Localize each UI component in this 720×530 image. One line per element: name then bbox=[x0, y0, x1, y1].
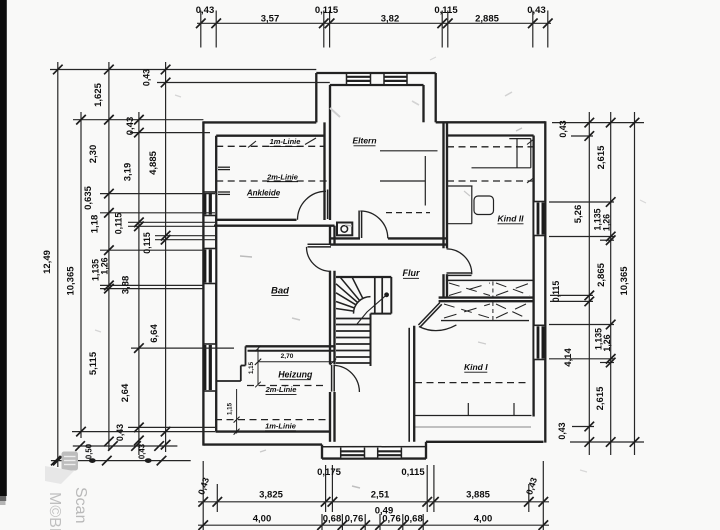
svg-text:1,26: 1,26 bbox=[602, 334, 612, 351]
svg-text:1m-Linie: 1m-Linie bbox=[270, 137, 301, 146]
svg-text:Kind II: Kind II bbox=[498, 214, 525, 224]
svg-text:0,49: 0,49 bbox=[375, 506, 394, 517]
svg-text:0,115: 0,115 bbox=[315, 5, 339, 16]
svg-text:0,115: 0,115 bbox=[114, 213, 124, 235]
svg-text:0,43: 0,43 bbox=[527, 5, 546, 16]
svg-text:1,15: 1,15 bbox=[227, 402, 234, 415]
svg-text:12,49: 12,49 bbox=[42, 250, 53, 274]
svg-text:1,15: 1,15 bbox=[248, 361, 255, 374]
svg-text:0,43: 0,43 bbox=[115, 424, 125, 441]
svg-text:0,115: 0,115 bbox=[434, 5, 458, 16]
svg-text:0,115: 0,115 bbox=[551, 281, 561, 303]
svg-text:Heizung: Heizung bbox=[278, 369, 313, 379]
svg-text:1,18: 1,18 bbox=[90, 215, 101, 234]
svg-text:3,885: 3,885 bbox=[466, 490, 490, 501]
svg-text:0,43: 0,43 bbox=[557, 422, 567, 439]
svg-text:Ankleide: Ankleide bbox=[246, 188, 281, 197]
svg-text:Eltern: Eltern bbox=[352, 136, 376, 146]
svg-text:2,51: 2,51 bbox=[371, 490, 390, 501]
svg-text:6,64: 6,64 bbox=[149, 324, 160, 343]
svg-text:2m-Linie: 2m-Linie bbox=[266, 172, 298, 181]
svg-text:0,115: 0,115 bbox=[401, 467, 425, 478]
svg-text:M©BI: M©BI bbox=[46, 492, 63, 530]
svg-text:3,88: 3,88 bbox=[121, 276, 132, 295]
svg-text:5,115: 5,115 bbox=[88, 351, 99, 375]
svg-text:0,76: 0,76 bbox=[345, 514, 364, 525]
svg-text:1,26: 1,26 bbox=[100, 257, 110, 274]
svg-text:0,50: 0,50 bbox=[85, 443, 94, 459]
svg-text:3,57: 3,57 bbox=[261, 14, 280, 25]
svg-text:2,865: 2,865 bbox=[596, 262, 607, 286]
svg-text:0,43: 0,43 bbox=[558, 120, 568, 137]
svg-text:0,635: 0,635 bbox=[83, 185, 94, 209]
svg-text:4,00: 4,00 bbox=[474, 514, 493, 525]
svg-text:0,43: 0,43 bbox=[196, 5, 215, 16]
svg-text:10,365: 10,365 bbox=[66, 266, 77, 296]
svg-text:Flur: Flur bbox=[403, 268, 420, 278]
svg-text:0,68: 0,68 bbox=[404, 514, 423, 525]
svg-text:4,885: 4,885 bbox=[148, 150, 159, 174]
svg-text:3,825: 3,825 bbox=[259, 490, 283, 501]
svg-text:0,43: 0,43 bbox=[138, 443, 147, 459]
svg-text:2m-Linie: 2m-Linie bbox=[265, 385, 297, 394]
svg-text:4,14: 4,14 bbox=[563, 348, 574, 367]
svg-text:Kind I: Kind I bbox=[464, 362, 488, 372]
svg-text:2,64: 2,64 bbox=[120, 383, 131, 402]
svg-text:4,00: 4,00 bbox=[253, 514, 272, 525]
svg-text:0,115: 0,115 bbox=[142, 232, 152, 254]
svg-text:2,70: 2,70 bbox=[281, 353, 294, 360]
svg-text:3,82: 3,82 bbox=[381, 14, 400, 25]
svg-text:5,26: 5,26 bbox=[573, 205, 584, 224]
svg-text:2,615: 2,615 bbox=[596, 145, 607, 169]
svg-text:1m-Linie: 1m-Linie bbox=[265, 422, 296, 431]
svg-text:2,885: 2,885 bbox=[475, 14, 499, 25]
svg-text:1,26: 1,26 bbox=[602, 214, 612, 231]
svg-text:0,68: 0,68 bbox=[323, 514, 342, 525]
svg-text:0,43: 0,43 bbox=[125, 117, 136, 136]
svg-text:0,43: 0,43 bbox=[142, 69, 152, 86]
svg-text:Bad: Bad bbox=[271, 285, 289, 296]
svg-text:10,365: 10,365 bbox=[619, 266, 630, 296]
svg-text:Scan: Scan bbox=[72, 487, 89, 523]
svg-text:0,175: 0,175 bbox=[317, 467, 341, 478]
svg-text:1,625: 1,625 bbox=[93, 82, 104, 106]
svg-text:2,615: 2,615 bbox=[595, 386, 606, 410]
svg-text:2,30: 2,30 bbox=[88, 145, 99, 164]
svg-text:3,19: 3,19 bbox=[123, 163, 134, 182]
